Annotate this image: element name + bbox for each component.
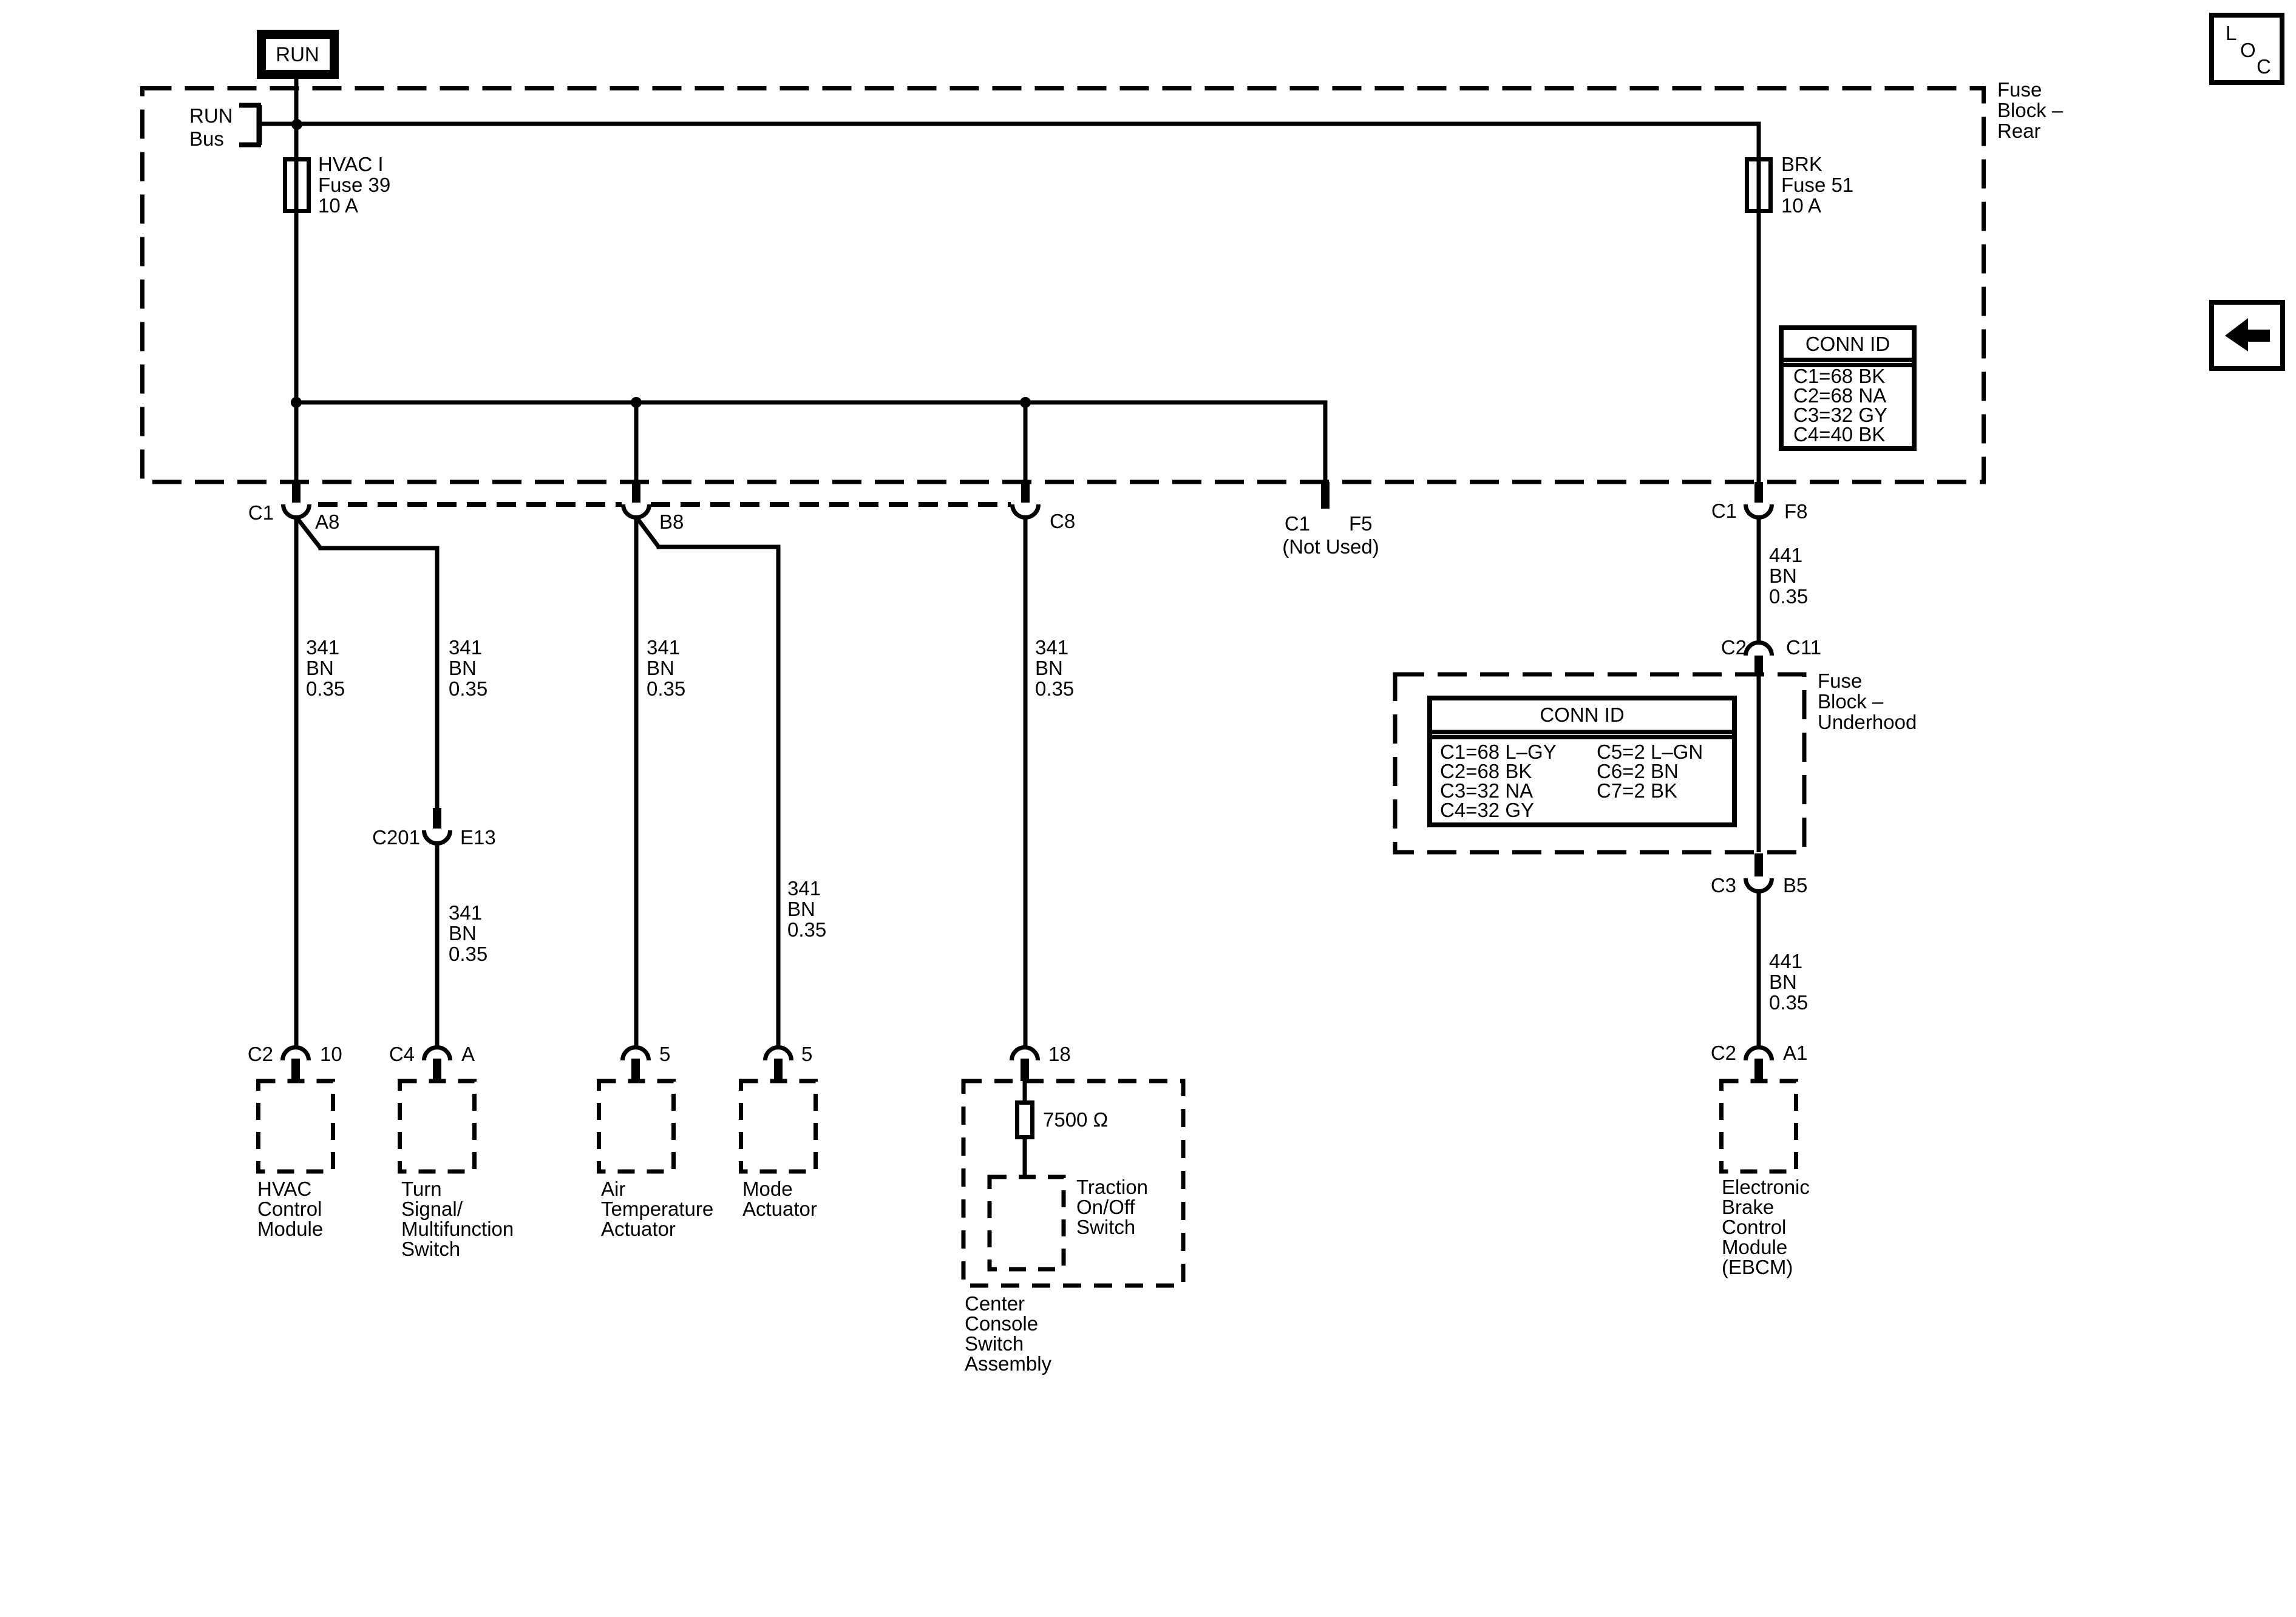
svg-text:RUN: RUN <box>276 43 319 66</box>
wire branch A8 diagonal to turn signal <box>297 518 321 548</box>
svg-text:HVAC I: HVAC I <box>318 153 384 175</box>
svg-text:441: 441 <box>1769 950 1802 972</box>
svg-text:Temperature: Temperature <box>601 1198 713 1220</box>
svg-text:RUN: RUN <box>189 104 233 127</box>
svg-text:Mode: Mode <box>742 1178 793 1200</box>
turn signal multifunction switch box <box>400 1081 475 1171</box>
conn id table rear separator <box>1781 358 1914 362</box>
connector C1 pin B8 <box>632 482 640 503</box>
svg-text:E13: E13 <box>460 826 496 849</box>
svg-text:0.35: 0.35 <box>787 918 826 941</box>
svg-text:Fuse: Fuse <box>1997 78 2042 101</box>
svg-text:L: L <box>2226 22 2237 44</box>
svg-text:(EBCM): (EBCM) <box>1722 1256 1793 1278</box>
svg-text:(Not Used): (Not Used) <box>1282 535 1379 558</box>
wire E13 to turn signal switch <box>435 841 440 1047</box>
svg-text:C201: C201 <box>372 826 420 849</box>
junction mid bus at traction wire <box>1020 397 1031 408</box>
switch node RUN box <box>262 35 335 75</box>
svg-text:10 A: 10 A <box>1781 194 1821 217</box>
svg-text:HVAC: HVAC <box>257 1178 311 1200</box>
conn id table rear box <box>1781 328 1914 449</box>
svg-text:C4=40 BK: C4=40 BK <box>1793 423 1885 446</box>
svg-text:O: O <box>2240 39 2256 61</box>
wire RUN switch to RUN bus junction <box>294 76 299 124</box>
svg-text:BRK: BRK <box>1781 153 1822 175</box>
svg-text:BN: BN <box>1769 971 1797 993</box>
svg-text:341: 341 <box>449 901 482 924</box>
RUN Bus bracket <box>257 105 262 145</box>
connector C1 pin C8 <box>1021 482 1030 503</box>
HVAC control module box <box>259 1081 333 1171</box>
svg-text:Fuse: Fuse <box>1818 670 1862 692</box>
connector C2 pin 10 <box>283 1048 309 1061</box>
svg-text:0.35: 0.35 <box>449 677 487 700</box>
junction mid bus at air temp wire <box>631 397 642 408</box>
connector C4 pin A <box>424 1048 450 1061</box>
svg-text:341: 341 <box>787 877 821 900</box>
svg-text:Signal/: Signal/ <box>401 1198 463 1220</box>
svg-text:BN: BN <box>647 657 674 679</box>
svg-text:C4=32 GY: C4=32 GY <box>1440 799 1534 821</box>
traction on/off switch box <box>990 1177 1064 1269</box>
svg-text:Assembly: Assembly <box>965 1352 1052 1375</box>
svg-text:C3: C3 <box>1711 874 1736 897</box>
conn id table underhood box <box>1430 698 1734 825</box>
svg-text:Switch: Switch <box>1076 1216 1135 1238</box>
svg-text:Block –: Block – <box>1997 99 2063 121</box>
connector C2 pin A1 (EBCM) <box>1746 1048 1772 1061</box>
wire BRK drop from RUN bus <box>1757 124 1761 482</box>
wire A8 to HVAC control module <box>294 515 299 1047</box>
wire B5 to EBCM <box>1757 889 1761 1046</box>
mode actuator box <box>741 1081 816 1171</box>
connector C201 pin E13 <box>433 808 441 829</box>
svg-text:F5: F5 <box>1349 512 1373 535</box>
svg-text:10: 10 <box>320 1043 342 1065</box>
svg-text:Turn: Turn <box>401 1178 442 1200</box>
svg-text:A1: A1 <box>1783 1042 1807 1064</box>
svg-text:5: 5 <box>801 1043 812 1065</box>
svg-text:BN: BN <box>306 657 334 679</box>
svg-text:0.35: 0.35 <box>1769 991 1808 1014</box>
svg-text:341: 341 <box>1035 636 1068 659</box>
wire resistor to traction switch <box>1023 1137 1027 1179</box>
svg-text:341: 341 <box>306 636 339 659</box>
svg-text:Rear: Rear <box>1997 120 2041 142</box>
connector C1 pin F5 stub (not used) <box>1321 482 1330 509</box>
svg-text:C2: C2 <box>1711 1042 1736 1064</box>
wire RUN bus to fuse 39 <box>294 124 299 402</box>
wire branch B8 diagonal to mode actuator <box>637 518 659 547</box>
svg-text:B5: B5 <box>1783 874 1807 897</box>
svg-text:0.35: 0.35 <box>449 943 487 965</box>
svg-text:341: 341 <box>449 636 482 659</box>
svg-text:C4: C4 <box>389 1043 415 1065</box>
svg-text:A8: A8 <box>315 510 339 533</box>
svg-text:Actuator: Actuator <box>601 1218 676 1240</box>
svg-text:BN: BN <box>1769 564 1797 587</box>
wire HVAC branch down to connector A8 <box>294 402 299 482</box>
svg-text:C1: C1 <box>248 501 274 524</box>
fuse block - rear dashed boundary <box>143 89 1984 483</box>
svg-text:C1: C1 <box>1285 512 1310 535</box>
svg-text:Electronic: Electronic <box>1722 1176 1810 1198</box>
resistor 7500 ohm <box>1017 1103 1033 1137</box>
svg-text:Traction: Traction <box>1076 1176 1148 1198</box>
connector C2 pin C11 <box>1746 643 1772 656</box>
svg-text:F8: F8 <box>1784 500 1808 523</box>
connector mode pin 5 <box>766 1048 792 1061</box>
svg-text:C: C <box>2257 55 2271 78</box>
svg-text:Bus: Bus <box>189 127 224 150</box>
svg-text:C2: C2 <box>248 1043 273 1065</box>
svg-text:7500 Ω: 7500 Ω <box>1043 1108 1108 1131</box>
svg-text:Underhood: Underhood <box>1818 711 1917 733</box>
svg-text:Module: Module <box>1722 1236 1787 1258</box>
svg-text:A: A <box>461 1043 475 1065</box>
svg-text:Switch: Switch <box>401 1238 460 1260</box>
inline connector dotted line B8-C8 <box>651 502 1011 507</box>
connector C1 pin F8 <box>1754 482 1763 503</box>
wire traction branch down to connector C8 <box>1024 402 1028 482</box>
wire pin 18 to resistor <box>1023 1081 1027 1103</box>
svg-text:On/Off: On/Off <box>1076 1196 1135 1218</box>
svg-text:Brake: Brake <box>1722 1196 1774 1218</box>
svg-text:0.35: 0.35 <box>1035 677 1074 700</box>
connector C1 pin A8 <box>292 482 301 503</box>
svg-text:C11: C11 <box>1786 636 1821 659</box>
svg-text:BN: BN <box>1035 657 1063 679</box>
svg-text:C2: C2 <box>1721 636 1747 659</box>
air temperature actuator box <box>599 1081 674 1171</box>
wire air temp branch down to connector B8 <box>634 402 639 482</box>
svg-text:0.35: 0.35 <box>647 677 685 700</box>
svg-text:441: 441 <box>1769 544 1802 566</box>
svg-text:C1: C1 <box>1711 500 1737 522</box>
wire middle bus <box>296 401 1328 405</box>
svg-text:5: 5 <box>659 1043 670 1065</box>
LOC reference box <box>2212 15 2282 83</box>
svg-text:341: 341 <box>647 636 680 659</box>
svg-text:Fuse 51: Fuse 51 <box>1781 174 1853 196</box>
EBCM box <box>1722 1081 1796 1171</box>
svg-text:Center: Center <box>965 1292 1025 1315</box>
svg-text:Switch: Switch <box>965 1332 1024 1355</box>
fuse BRK Fuse 51 10A <box>1747 160 1771 211</box>
svg-text:Block –: Block – <box>1818 690 1884 713</box>
svg-text:Actuator: Actuator <box>742 1198 817 1220</box>
connector C3 pin B5 <box>1754 853 1763 876</box>
inline connector dotted line A8-B8 <box>318 502 622 507</box>
connector air temp pin 5 <box>623 1048 649 1061</box>
svg-text:Control: Control <box>257 1198 322 1220</box>
center console switch assembly box <box>963 1081 1183 1286</box>
fuse block - underhood dashed boundary <box>1395 674 1804 852</box>
svg-text:Air: Air <box>601 1178 625 1200</box>
wire RUN bus horizontal <box>296 122 1761 126</box>
svg-text:BN: BN <box>449 922 477 944</box>
svg-text:Fuse 39: Fuse 39 <box>318 174 390 196</box>
svg-text:Module: Module <box>257 1218 323 1240</box>
conn id table underhood separator <box>1430 730 1734 734</box>
wire C8 to traction switch <box>1024 515 1028 1047</box>
junction RUN bus <box>291 119 302 130</box>
svg-text:Control: Control <box>1722 1216 1786 1238</box>
svg-text:B8: B8 <box>659 510 684 533</box>
svg-text:Multifunction: Multifunction <box>401 1218 514 1240</box>
svg-text:BN: BN <box>449 657 477 679</box>
svg-text:Console: Console <box>965 1312 1038 1335</box>
arrow navigation box <box>2212 302 2283 368</box>
svg-text:10 A: 10 A <box>318 194 358 217</box>
fuse HVAC I Fuse 39 10A <box>285 160 309 211</box>
connector traction pin 18 <box>1012 1048 1038 1061</box>
wire not-used drop to F5 <box>1323 402 1328 506</box>
svg-text:CONN ID: CONN ID <box>1540 703 1624 726</box>
svg-text:C8: C8 <box>1050 510 1075 532</box>
wire through underhood fuse block <box>1757 674 1761 852</box>
svg-text:C7=2 BK: C7=2 BK <box>1597 779 1677 802</box>
svg-text:0.35: 0.35 <box>306 677 345 700</box>
wire B8 to air temperature actuator <box>634 515 639 1047</box>
svg-text:18: 18 <box>1048 1043 1071 1065</box>
svg-text:BN: BN <box>787 898 815 920</box>
wire F8 to underhood fuse block <box>1757 515 1761 643</box>
svg-text:CONN ID: CONN ID <box>1805 333 1890 355</box>
svg-text:0.35: 0.35 <box>1769 585 1808 608</box>
junction mid bus at HVAC wire <box>291 397 302 408</box>
